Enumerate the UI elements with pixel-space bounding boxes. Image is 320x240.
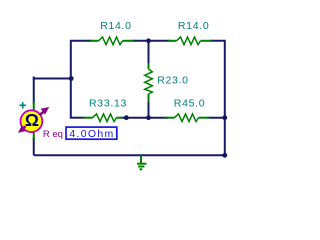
svg-text:R23.0: R23.0 [157,74,189,86]
svg-text:R eq: R eq [43,129,63,140]
svg-text:Ω: Ω [25,110,39,130]
svg-text:4.0Ohm: 4.0Ohm [69,128,114,140]
svg-text:R14.0: R14.0 [100,20,132,32]
svg-text:R45.0: R45.0 [174,98,206,110]
svg-text:R14.0: R14.0 [178,20,210,32]
svg-text:R33.13: R33.13 [89,98,127,110]
